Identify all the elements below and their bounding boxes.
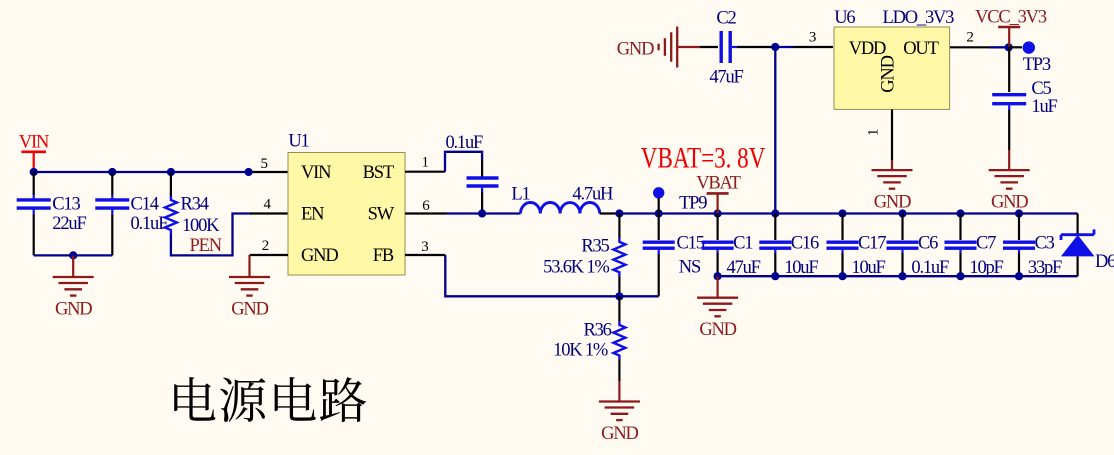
svg-text:R34: R34 <box>181 195 209 215</box>
svg-text:C2: C2 <box>716 9 736 29</box>
svg-text:NS: NS <box>679 258 701 278</box>
svg-text:GND: GND <box>878 55 898 92</box>
svg-text:EN: EN <box>301 205 324 225</box>
svg-text:3: 3 <box>421 239 428 255</box>
svg-text:R35: R35 <box>581 236 609 256</box>
svg-text:5: 5 <box>260 156 267 172</box>
svg-text:0.1uF: 0.1uF <box>911 258 949 278</box>
svg-text:10pF: 10pF <box>969 258 1003 278</box>
svg-text:0.1uF: 0.1uF <box>131 214 169 234</box>
svg-text:GND: GND <box>301 246 338 266</box>
svg-text:1: 1 <box>421 155 428 171</box>
svg-text:C14: C14 <box>131 195 159 215</box>
svg-text:GND: GND <box>231 299 268 319</box>
svg-text:GND: GND <box>699 320 736 340</box>
svg-text:1uF: 1uF <box>1031 97 1057 117</box>
svg-text:LDO_3V3: LDO_3V3 <box>883 8 955 28</box>
svg-text:VBAT: VBAT <box>696 174 740 194</box>
svg-text:100K: 100K <box>182 216 220 236</box>
svg-text:TP3: TP3 <box>1023 55 1051 75</box>
svg-text:2: 2 <box>262 238 269 254</box>
svg-text:3: 3 <box>809 30 816 46</box>
svg-text:SW: SW <box>368 205 395 225</box>
svg-text:C1: C1 <box>733 234 753 254</box>
svg-text:OUT: OUT <box>903 39 938 59</box>
svg-text:4: 4 <box>264 197 272 213</box>
svg-text:47uF: 47uF <box>727 258 761 278</box>
svg-text:U1: U1 <box>288 132 309 152</box>
svg-text:TP9: TP9 <box>679 193 707 213</box>
svg-text:VIN: VIN <box>301 163 331 183</box>
svg-text:GND: GND <box>55 299 92 319</box>
svg-text:53.6K 1%: 53.6K 1% <box>543 258 609 278</box>
svg-text:VIN: VIN <box>19 133 49 153</box>
svg-text:C13: C13 <box>52 195 80 215</box>
svg-text:GND: GND <box>991 193 1028 213</box>
svg-text:C17: C17 <box>858 234 886 254</box>
svg-text:GND: GND <box>874 193 911 213</box>
svg-text:C3: C3 <box>1035 234 1055 254</box>
svg-text:47uF: 47uF <box>709 68 743 88</box>
svg-text:D6: D6 <box>1095 252 1114 272</box>
svg-text:BST: BST <box>363 163 394 183</box>
svg-text:R36: R36 <box>583 320 611 340</box>
svg-text:22uF: 22uF <box>52 214 86 234</box>
svg-text:C7: C7 <box>976 234 996 254</box>
svg-text:VDD: VDD <box>849 39 886 59</box>
svg-text:10K 1%: 10K 1% <box>553 340 608 360</box>
svg-text:U6: U6 <box>834 8 855 28</box>
svg-text:33pF: 33pF <box>1028 258 1062 278</box>
svg-text:VBAT=3. 8V: VBAT=3. 8V <box>641 142 766 175</box>
svg-text:C6: C6 <box>918 234 938 254</box>
svg-text:6: 6 <box>422 198 430 214</box>
svg-text:10uF: 10uF <box>851 258 885 278</box>
svg-text:C15: C15 <box>677 234 705 254</box>
svg-text:2: 2 <box>966 30 973 46</box>
svg-text:4.7uH: 4.7uH <box>572 185 613 205</box>
svg-text:0.1uF: 0.1uF <box>445 133 483 153</box>
svg-text:FB: FB <box>373 246 394 266</box>
svg-text:GND: GND <box>617 40 654 60</box>
svg-text:PEN: PEN <box>190 236 222 256</box>
svg-text:GND: GND <box>601 424 638 444</box>
svg-text:C16: C16 <box>791 234 819 254</box>
svg-text:1: 1 <box>866 129 882 136</box>
svg-text:VCC_3V3: VCC_3V3 <box>975 8 1047 28</box>
svg-text:10uF: 10uF <box>784 258 818 278</box>
svg-text:L1: L1 <box>511 185 530 205</box>
